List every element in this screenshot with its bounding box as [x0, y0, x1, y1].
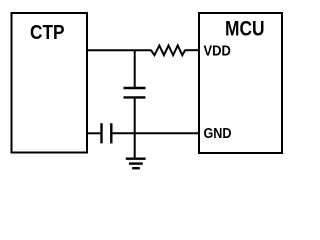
wire CTP to resistor [87, 49, 152, 51]
wire CTP to capacitor C2 [87, 132, 101, 134]
svg-text:GND: GND [204, 126, 232, 142]
CTP block U1 [12, 13, 88, 153]
svg-text:MCU: MCU [225, 18, 265, 41]
wire C1 to ground [134, 98, 136, 160]
resistor R1 [151, 46, 185, 56]
capacitor C2 (horizontal) [102, 123, 112, 143]
node junction on VDD wire [134, 50, 136, 88]
svg-text:VDD: VDD [204, 43, 231, 59]
svg-text:CTP: CTP [30, 22, 65, 44]
ground symbol [126, 159, 146, 169]
wire resistor to MCU VDD pin [185, 49, 201, 51]
MCU block U2 [199, 13, 282, 153]
capacitor C1 (vertical) [124, 88, 146, 97]
wire C2 to MCU GND pin [112, 132, 200, 134]
